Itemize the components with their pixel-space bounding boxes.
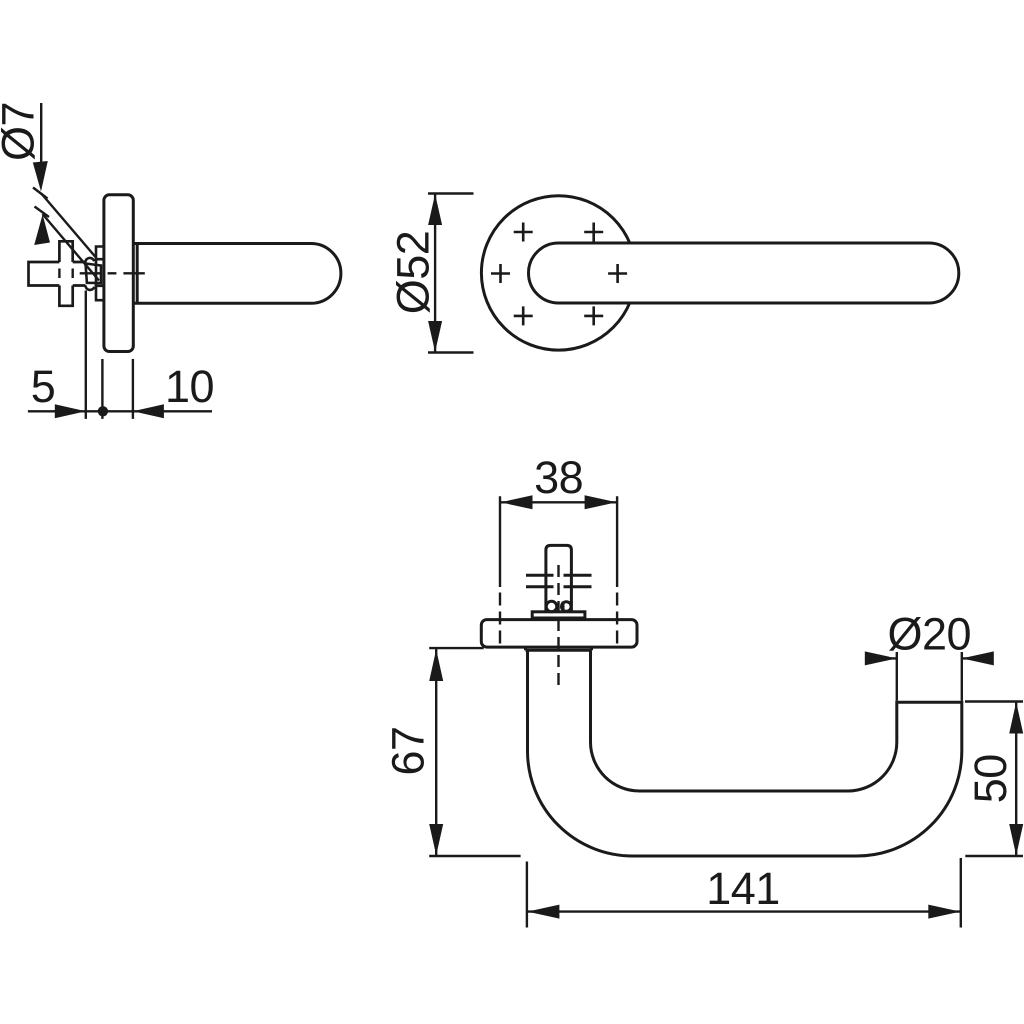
screw tab connecting edge bbox=[95, 259, 98, 286]
screw hole center mark bottom-left bbox=[514, 306, 533, 325]
Ø52 top arrow bbox=[428, 194, 442, 225]
Ø7 upper tick bbox=[33, 188, 48, 199]
dimension 38 right hidden extension bbox=[616, 593, 618, 644]
Ø7 lower tick bbox=[35, 207, 50, 218]
dimension 141 line bbox=[527, 910, 961, 912]
dimension 10 arrow bbox=[133, 404, 164, 418]
svg-text:10: 10 bbox=[165, 361, 214, 412]
Ø20 left arrow bbox=[865, 651, 897, 665]
svg-text:141: 141 bbox=[706, 863, 780, 914]
67 top arrow bbox=[429, 650, 443, 682]
screw hole center mark left bbox=[491, 264, 510, 283]
Ø7 lower arrow bbox=[34, 215, 50, 246]
dimension 67 line bbox=[435, 649, 437, 856]
dimension 38 left extension line bbox=[499, 496, 501, 587]
grub screw divider line bbox=[562, 602, 565, 612]
Ø7 upper arrow bbox=[33, 161, 48, 192]
svg-text:67: 67 bbox=[383, 726, 434, 775]
141 left arrow bbox=[527, 905, 559, 919]
screw bottom washer arc bbox=[85, 285, 94, 290]
lever handle (front view) bbox=[529, 243, 959, 303]
svg-text:Ø52: Ø52 bbox=[388, 231, 439, 315]
Ø7 extension diagonal A bbox=[41, 194, 96, 258]
spindle flange lower edge (top view) bbox=[526, 585, 592, 588]
dimension 38 left hidden extension bbox=[499, 593, 501, 644]
dimension 5 and 10 extension lines bbox=[86, 291, 133, 419]
spindle square bar (side view) bbox=[29, 262, 86, 286]
screw top washer arc bbox=[85, 258, 94, 263]
dimension 67 top extension line bbox=[429, 647, 484, 649]
dimension 50 bottom extension line bbox=[965, 855, 1023, 857]
spindle flange upper edge (top view) bbox=[526, 574, 592, 577]
dimension Ø20 left line bbox=[865, 657, 897, 659]
screw hole center mark top-left bbox=[514, 223, 533, 242]
Ø20 left extension line bbox=[896, 652, 898, 701]
svg-text:50: 50 bbox=[965, 754, 1016, 803]
Ø20 right extension line bbox=[961, 652, 963, 701]
svg-text:38: 38 bbox=[534, 452, 583, 503]
Ø7 extension diagonal B bbox=[43, 214, 100, 281]
dimension 141 right extension line bbox=[960, 858, 962, 928]
dimension Ø52 top extension line bbox=[428, 192, 474, 194]
screw upper guide tab bbox=[96, 247, 103, 260]
neck collar bbox=[526, 647, 592, 650]
50 top arrow bbox=[1009, 702, 1023, 734]
dimension 141 left extension line bbox=[526, 862, 528, 928]
center line (side view) bbox=[80, 272, 145, 274]
67 bottom arrow bbox=[429, 824, 443, 855]
rosette face circle bbox=[481, 196, 635, 350]
dimension 50 line bbox=[1015, 702, 1017, 857]
mounting plate (top view) bbox=[532, 612, 585, 618]
screw lower guide tab bbox=[96, 286, 103, 300]
lever handle (side view) bbox=[134, 244, 341, 304]
center line (top view) bbox=[557, 565, 559, 688]
shared dimension dot bbox=[98, 406, 108, 416]
dimension 5/10 line bbox=[28, 410, 212, 412]
spindle flange (side view) bbox=[59, 241, 72, 305]
fixing screw (side view) bbox=[86, 264, 102, 284]
square spindle (top view) bbox=[546, 545, 572, 611]
dimension 67 bottom extension line bbox=[429, 855, 520, 857]
dimension Ø7 leader line bbox=[40, 103, 42, 170]
dimension Ø52 line bbox=[434, 194, 436, 353]
svg-text:Ø20: Ø20 bbox=[888, 609, 972, 660]
38 right arrow bbox=[585, 495, 617, 509]
141 right arrow bbox=[928, 905, 960, 919]
50 bottom arrow bbox=[1009, 824, 1023, 856]
svg-text:5: 5 bbox=[31, 361, 56, 412]
rosette (top view) bbox=[481, 620, 637, 648]
screw hole center mark top-right bbox=[584, 223, 603, 242]
rosette (side view) bbox=[104, 195, 133, 352]
left grub screw bbox=[546, 601, 557, 612]
right grub screw bbox=[562, 602, 572, 612]
dimension 50 top extension line bbox=[965, 700, 1023, 702]
dimension 5 arrow bbox=[55, 404, 86, 418]
Ø52 bottom arrow bbox=[428, 321, 442, 352]
dimension 38 right extension line bbox=[616, 496, 618, 587]
spindle center mark on lever bbox=[608, 264, 627, 283]
flange hidden edge dashes bbox=[59, 269, 72, 279]
dimension Ø52 bottom extension line bbox=[428, 351, 474, 353]
38 left arrow bbox=[501, 495, 533, 509]
lever handle tube (top view) bbox=[528, 650, 962, 856]
screw hole center mark bottom-right bbox=[584, 306, 603, 325]
lever neck junction line bbox=[136, 244, 139, 304]
svg-text:Ø7: Ø7 bbox=[0, 102, 44, 161]
Ø20 right arrow bbox=[962, 651, 994, 665]
dimension Ø20 right line bbox=[962, 657, 994, 659]
dimension 38 line bbox=[500, 501, 617, 503]
